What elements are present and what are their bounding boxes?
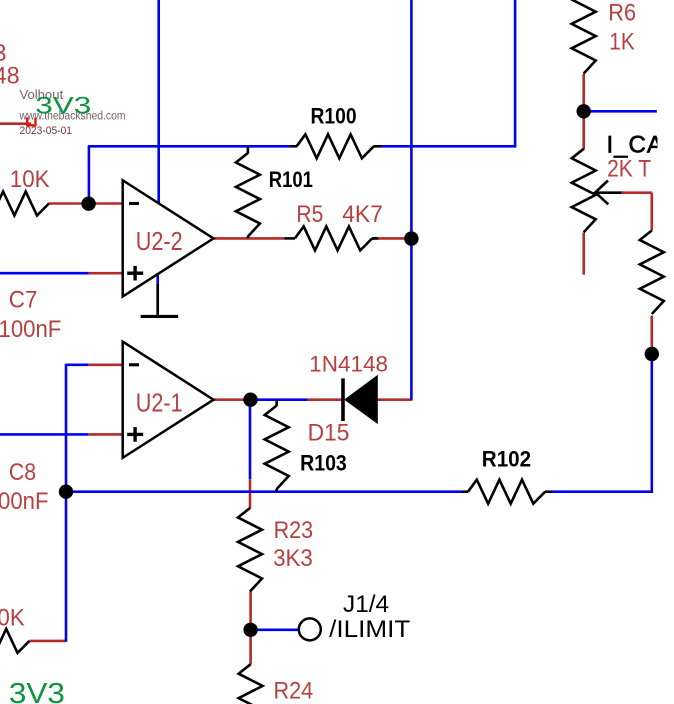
svg-text:U2-1: U2-1 [136, 390, 183, 418]
svg-text:10K: 10K [0, 605, 25, 632]
svg-text:C8: C8 [9, 459, 36, 486]
svg-text:2023-05-01: 2023-05-01 [20, 125, 73, 137]
svg-text:D15: D15 [308, 420, 350, 447]
svg-text:R102: R102 [482, 446, 531, 471]
svg-text:2K T: 2K T [607, 156, 651, 183]
svg-text:4K7: 4K7 [342, 201, 383, 228]
svg-text:3K3: 3K3 [273, 545, 313, 572]
svg-text:100nF: 100nF [0, 488, 48, 515]
svg-text:3V3: 3V3 [9, 678, 65, 704]
svg-text:I_CAL: I_CAL [607, 132, 674, 159]
svg-text:J1/4: J1/4 [343, 591, 389, 618]
svg-text:1K: 1K [609, 28, 634, 55]
svg-text:R101: R101 [269, 167, 313, 192]
svg-text:R103: R103 [300, 451, 347, 476]
svg-text:R100: R100 [311, 103, 357, 128]
svg-text:R23: R23 [274, 517, 314, 544]
svg-text:3V3: 3V3 [35, 92, 91, 119]
svg-text:48: 48 [0, 62, 20, 89]
svg-text:R24: R24 [274, 678, 314, 704]
svg-text:/ILIMIT: /ILIMIT [329, 616, 410, 643]
svg-text:1N4148: 1N4148 [309, 351, 388, 376]
svg-text:10K: 10K [10, 166, 50, 193]
svg-text:R5: R5 [296, 201, 323, 228]
svg-text:C7: C7 [9, 286, 38, 313]
svg-text:100nF: 100nF [0, 316, 61, 343]
svg-text:R6: R6 [608, 0, 636, 26]
svg-text:U2-2: U2-2 [136, 228, 183, 256]
